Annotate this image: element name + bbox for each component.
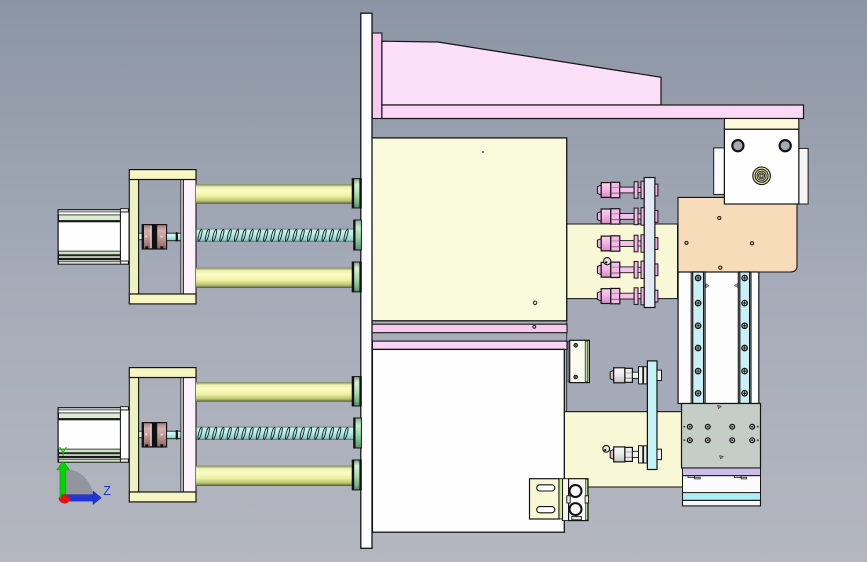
actuator A ballscrew	[197, 229, 354, 242]
actuator B ballscrew	[197, 427, 354, 440]
rail screws	[695, 275, 700, 280]
gray fitting G2	[610, 446, 661, 463]
pink fitting F1	[597, 181, 658, 198]
axis Z arrow (blue)	[62, 495, 93, 501]
guide rail right	[738, 272, 751, 404]
actuator B rod flange lower	[352, 460, 361, 490]
slide white block	[683, 476, 761, 493]
bearing block hole left	[732, 140, 743, 151]
svg-text:Y: Y	[59, 444, 68, 459]
linear guide body	[678, 272, 759, 404]
housing dot a	[482, 151, 484, 153]
tan adapter plate	[678, 197, 797, 272]
purple strip	[683, 468, 761, 476]
axis Y arrow (green)	[60, 469, 66, 498]
upper housing (cream box)	[372, 138, 567, 321]
actuator A guide rod lower	[196, 268, 352, 288]
gray fitting G1	[610, 367, 661, 384]
actuator B screw flange	[354, 418, 362, 448]
connector bar upper (pale blue)	[644, 178, 655, 308]
top cover plate (pink bar)	[382, 105, 804, 119]
actuator B motor shaft stub	[139, 431, 143, 438]
pink fitting F3	[597, 235, 658, 252]
actuator A screw flange	[354, 220, 362, 250]
axis origin (red)	[59, 498, 71, 504]
pink fitting F2	[597, 208, 658, 225]
sensor bracket screws	[574, 344, 578, 348]
clamp green edge	[586, 479, 588, 520]
svg-text:Z: Z	[103, 484, 111, 498]
actuator B screw input shaft	[167, 431, 181, 439]
sensor bracket	[570, 340, 590, 382]
actuator B guide rod lower	[196, 466, 352, 486]
slide inner marks	[706, 284, 710, 288]
actuator B rod flange upper	[352, 377, 361, 406]
tan plate screw holes	[718, 216, 721, 219]
clamp circle 2	[570, 503, 582, 515]
slide plate corner marks	[683, 426, 685, 428]
pink strip upper	[372, 324, 568, 333]
lower housing (white box)	[372, 349, 564, 532]
housing dot b	[533, 301, 536, 304]
column strip (pink)	[372, 33, 382, 119]
green strip	[559, 479, 563, 519]
clamp circle 1	[570, 485, 582, 497]
slotted bracket (cream)	[530, 479, 560, 519]
actuator A guide rod upper	[196, 184, 352, 204]
clamp block	[569, 479, 588, 521]
bearing concentric rings	[753, 167, 771, 185]
sensor bracket green stripe	[585, 341, 588, 382]
actuator B motor	[58, 408, 129, 462]
base block (gray, edge-on)	[567, 299, 682, 412]
retaining ring on fitting G2	[603, 445, 610, 452]
slot 2	[537, 507, 555, 513]
bearing block	[724, 129, 798, 204]
upper platform (cream)	[567, 224, 678, 299]
actuator A screw input shaft	[167, 233, 181, 241]
retaining ring on fitting F4	[604, 258, 611, 265]
slide plate (gray)	[682, 404, 761, 469]
slide block notches	[688, 476, 695, 478]
axis triad sector	[65, 469, 94, 498]
sensor bracket spacer	[568, 341, 570, 382]
pink fitting F5	[597, 287, 658, 304]
motor mount wedge (pink trapezoid)	[382, 41, 661, 105]
actuator A motor	[58, 210, 129, 264]
actuator B coupling	[142, 423, 166, 447]
pink strip lower	[372, 341, 567, 349]
slide plate screws	[687, 424, 692, 429]
vertical mounting plate	[361, 13, 372, 548]
slot 1	[537, 485, 555, 491]
bearing block left tab	[714, 148, 725, 195]
lower platform (cream)	[564, 412, 683, 487]
actuator B guide rod upper	[196, 382, 352, 402]
actuator A coupling	[142, 225, 166, 249]
cyan strip	[683, 493, 761, 501]
white strip	[683, 500, 761, 506]
bearing block right tab	[799, 148, 808, 204]
clamp bottom tab	[572, 517, 582, 520]
actuator A motor shaft stub	[139, 233, 143, 240]
actuator A rod flange lower	[352, 262, 361, 292]
spacer block (cream)	[724, 119, 798, 130]
bearing block hole right	[780, 140, 791, 151]
guide rail left	[691, 272, 705, 404]
actuator A frame	[129, 170, 196, 304]
actuator B frame	[129, 368, 196, 502]
strip dot	[533, 325, 536, 328]
actuator A rod flange upper	[352, 179, 361, 208]
clamp side tabs	[567, 496, 570, 503]
connector bar lower (cyan)	[647, 361, 657, 470]
white spacer	[563, 479, 569, 521]
pink fitting F4	[597, 261, 658, 278]
